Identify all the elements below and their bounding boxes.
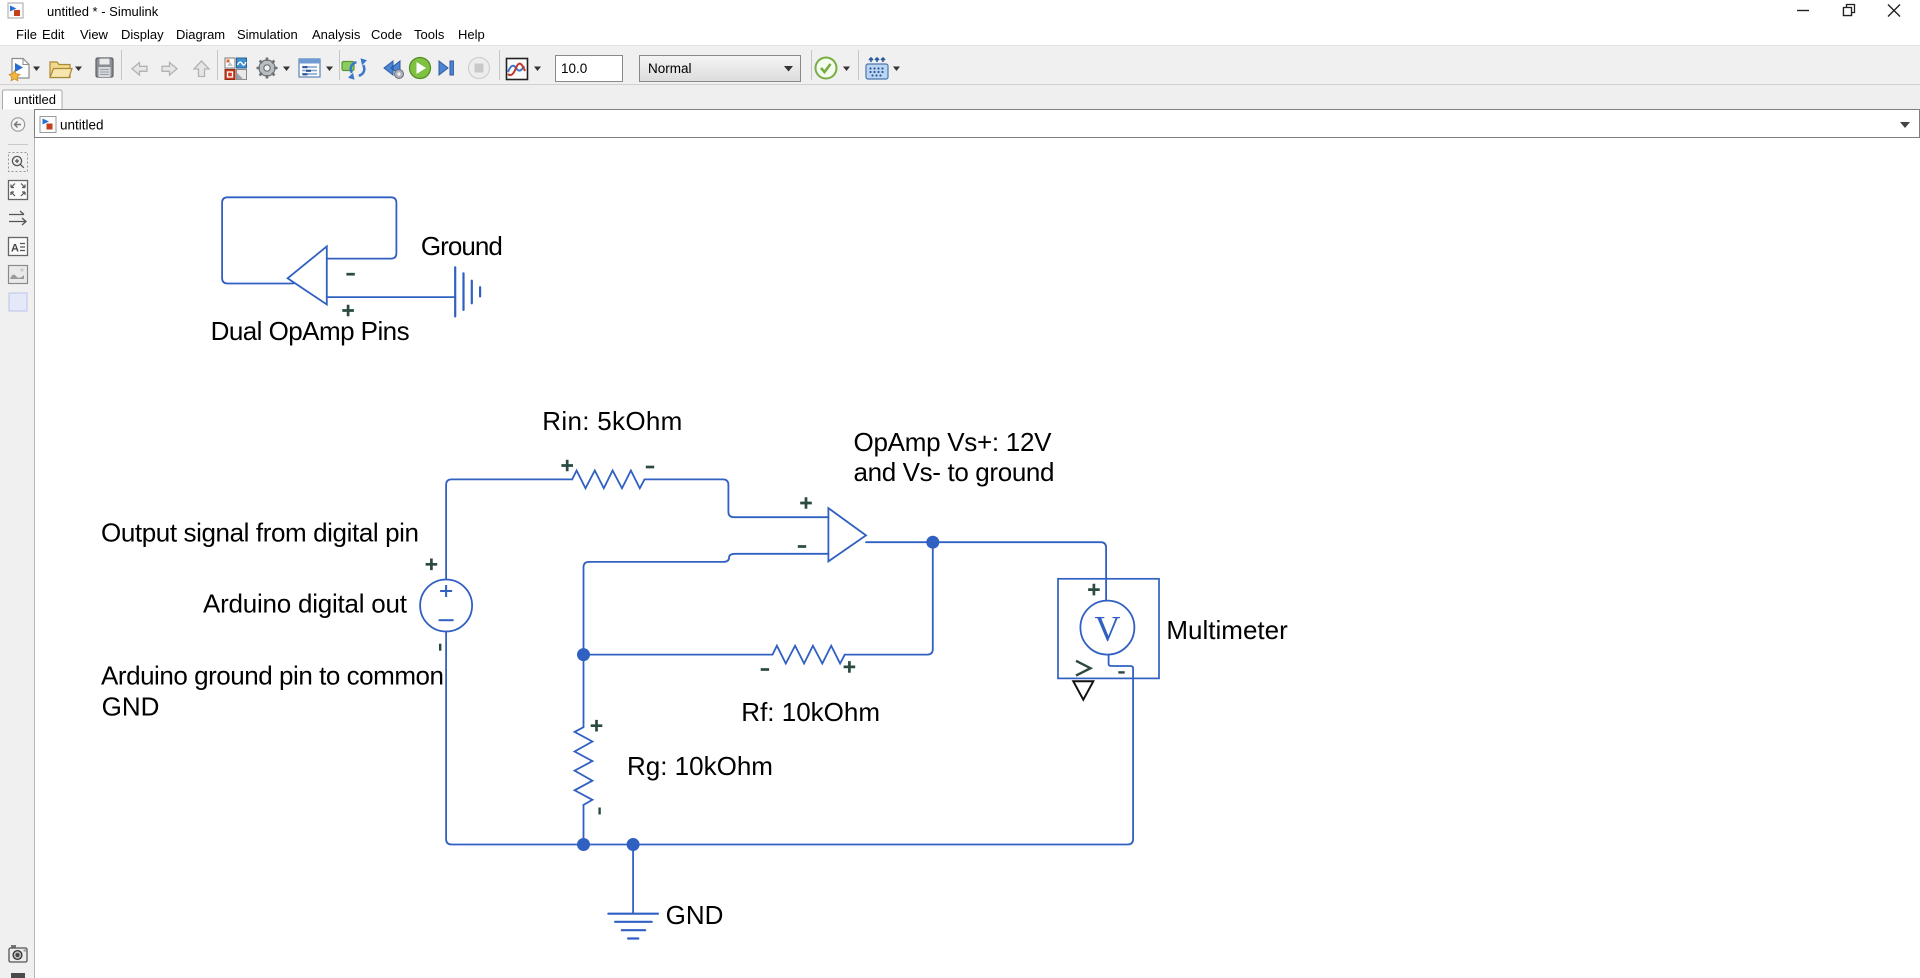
svg-text:GND: GND [102, 692, 160, 722]
label OpAmp Vs annotation [854, 427, 1055, 487]
label Rf: 10kOhm [741, 697, 880, 727]
menu item Simulation [237, 27, 298, 42]
toolbar: library browser icon [225, 58, 247, 80]
svg-text:Edit: Edit [42, 27, 65, 42]
port label - (V1) [439, 644, 441, 651]
ground G1 (top) [455, 267, 480, 316]
restore button [1844, 5, 1855, 16]
wire Rin to U2 + input [645, 479, 829, 517]
menu item Diagram [176, 27, 225, 42]
svg-text:Tools: Tools [414, 27, 445, 42]
menu item Display [121, 27, 164, 42]
toolbar: model configuration gear [257, 58, 278, 79]
svg-text:untitled * - Simulink: untitled * - Simulink [47, 4, 159, 19]
toolbar separator [121, 50, 123, 80]
sidebar separator [8, 144, 28, 146]
svg-text:Help: Help [458, 27, 485, 42]
wire node A down to Rf right [845, 542, 933, 654]
label Ground [421, 231, 503, 261]
ground G2 (GND) [608, 914, 658, 939]
sidebar annotation icon [9, 238, 28, 256]
sidebar fit-to-view icon [9, 181, 28, 200]
voltmeter dial V [1080, 601, 1134, 655]
menu item Code [371, 27, 402, 42]
Simulink app icon [8, 3, 23, 18]
sidebar hidden icon (clipped) [11, 973, 25, 978]
toolbar: step back icon [384, 61, 404, 79]
wire V1- to bottom rail [446, 632, 583, 845]
toolbar: new model button [9, 59, 29, 81]
wire Rf left to node B [584, 654, 773, 656]
op-amp U2 (points right) [828, 508, 866, 561]
sidebar camera icon [9, 945, 27, 962]
label Rin: 5kOhm [542, 406, 682, 436]
annotation: Arduino ground pin to common GND [101, 661, 444, 722]
toolbar separator [217, 50, 219, 80]
label Multimeter [1166, 615, 1288, 645]
menu item Edit [42, 27, 65, 42]
svg-text:Diagram: Diagram [176, 27, 225, 42]
wire U1 + input to Ground [327, 296, 455, 298]
wire node B up to U2 - input [584, 554, 829, 655]
port label + (Rin left) [561, 460, 573, 472]
toolbar: open button [50, 62, 72, 78]
multimeter M1 block box [1058, 579, 1159, 679]
menu item View [80, 27, 109, 42]
wire U2 output to node A [866, 541, 933, 543]
svg-text:Output signal from digital pin: Output signal from digital pin [101, 518, 419, 548]
toolbar: model explorer icon [299, 59, 320, 77]
port label - (Rg bottom) [598, 808, 600, 815]
svg-text:Arduino digital out: Arduino digital out [203, 589, 408, 619]
svg-text:Simulation: Simulation [237, 27, 298, 42]
toolbar: refresh blocks check icon [816, 58, 837, 79]
node C (Rg/rail junction) [577, 838, 590, 851]
port label - (U1 inverting input) [346, 273, 354, 276]
wire node D to GND [632, 845, 634, 914]
svg-text:Arduino ground pin to common: Arduino ground pin to common [101, 661, 444, 691]
left palette sidebar [0, 110, 35, 978]
label GND [666, 900, 724, 930]
port label + (Rf right) [844, 661, 856, 673]
svg-text:untitled: untitled [60, 118, 104, 133]
port label - (U2 inverting) [798, 545, 806, 548]
toolbar background [0, 45, 1920, 85]
svg-text:Rf: 10kOhm: Rf: 10kOhm [741, 697, 880, 727]
close button [1888, 5, 1900, 17]
resistor Rin 5kOhm [572, 471, 644, 489]
label Rg: 10kOhm [627, 751, 773, 781]
voltage source V1 (Arduino digital out) [420, 580, 472, 632]
breadcrumb dropdown arrow [1900, 122, 1910, 128]
toolbar: simulation mode dropdown [640, 56, 801, 82]
toolbar: back arrow (disabled) [132, 63, 147, 76]
title bar [0, 0, 1920, 22]
tab strip [0, 85, 1920, 110]
svg-text:Dual OpAmp Pins: Dual OpAmp Pins [211, 316, 410, 346]
svg-text:Rin: 5kOhm: Rin: 5kOhm [542, 406, 682, 436]
toolbar: step forward icon [439, 61, 453, 75]
sidebar signal arrows icon [9, 211, 26, 225]
sidebar zoom tool icon [9, 153, 28, 172]
active tab untitled [3, 90, 63, 110]
toolbar separator [811, 50, 813, 80]
svg-text:A: A [11, 243, 19, 255]
breadcrumb model name [60, 118, 104, 133]
port label - (M1) [1118, 671, 1124, 673]
port label + (U2 non-inverting) [800, 497, 812, 509]
menu item Help [458, 27, 485, 42]
breadcrumb nav back button [11, 118, 24, 131]
toolbar: scope icon [507, 59, 528, 80]
port label + (U1 non-inverting input) [342, 305, 354, 317]
svg-text:View: View [80, 27, 109, 42]
menu bar [0, 22, 1920, 45]
svg-text:Ground: Ground [421, 231, 503, 261]
signal ground arrow (below M1) [1073, 681, 1093, 699]
wire Rg bottom to node C [583, 805, 585, 845]
svg-text:GND: GND [666, 900, 724, 930]
toolbar separator [858, 50, 860, 80]
node A (op-amp output junction) [926, 536, 939, 549]
svg-text:Normal: Normal [648, 61, 692, 76]
toolbar separator [339, 50, 341, 80]
toolbar: up arrow (disabled) [194, 61, 209, 77]
toolbar separator [499, 50, 501, 80]
svg-text:Rg: 10kOhm: Rg: 10kOhm [627, 751, 773, 781]
toolbar: run button [410, 58, 431, 79]
toolbar: forward arrow (disabled) [162, 63, 177, 76]
svg-text:Multimeter: Multimeter [1166, 615, 1288, 645]
subsystem Dual OpAmp Pins: feedback loop outline [222, 197, 396, 283]
svg-text:OpAmp Vs+: 12V: OpAmp Vs+: 12V [854, 427, 1053, 457]
svg-text:untitled: untitled [14, 92, 56, 107]
port label + (Rg top) [591, 720, 603, 732]
breadcrumb model icon [40, 117, 56, 133]
annotation: Output signal from digital pin [101, 518, 419, 548]
wire node A to Multimeter + [933, 542, 1106, 600]
breadcrumb bar [35, 110, 1920, 138]
port label + (M1) [1088, 584, 1100, 596]
op-amp U1 (Dual OpAmp Pins block, points left) [288, 246, 327, 304]
svg-text:V: V [1095, 609, 1121, 649]
toolbar: stop button (disabled) [469, 58, 490, 79]
window title text [47, 4, 159, 19]
toolbar: save button [96, 58, 113, 77]
port label - (Rin right) [646, 466, 654, 469]
svg-text:Analysis: Analysis [312, 27, 361, 42]
svg-text:File: File [16, 27, 37, 42]
sidebar image icon [9, 266, 28, 284]
svg-text:and Vs- to ground: and Vs- to ground [854, 457, 1055, 487]
label Dual OpAmp Pins [211, 316, 410, 346]
annotation: Arduino digital out [203, 589, 408, 619]
svg-text:Display: Display [121, 27, 164, 42]
resistor Rg 10kOhm [575, 727, 593, 805]
svg-text:10.0: 10.0 [561, 61, 587, 76]
toolbar: build icon [866, 58, 888, 79]
bottom rail wire to Multimeter - [584, 655, 1134, 845]
toolbar: simulation stop time field [556, 56, 623, 82]
svg-text:Code: Code [371, 27, 402, 42]
node B (feedback junction) [577, 648, 590, 661]
menu item Analysis [312, 27, 361, 42]
port label - (Rf left) [761, 668, 769, 671]
port label > (M1 signal out) [1076, 661, 1091, 676]
resistor Rf 10kOhm [773, 646, 845, 664]
wire node B down to Rg [583, 655, 585, 728]
toolbar: update diagram icon [342, 58, 367, 80]
port label + (V1) [426, 559, 438, 571]
menu item File [16, 27, 37, 42]
menu item Tools [414, 27, 445, 42]
sidebar viewmark square [9, 293, 27, 311]
wire V1+ up to Rin [446, 479, 572, 579]
node D (ground tap junction) [627, 838, 640, 851]
minimize button [1797, 10, 1809, 12]
